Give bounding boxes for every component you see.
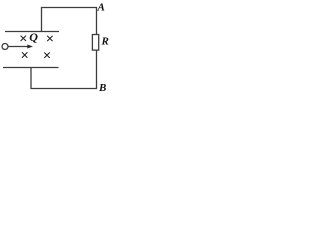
svg-text:A: A (97, 2, 105, 14)
svg-text:Q: Q (29, 30, 38, 44)
svg-text:B: B (98, 82, 106, 94)
svg-text:R: R (101, 36, 109, 48)
